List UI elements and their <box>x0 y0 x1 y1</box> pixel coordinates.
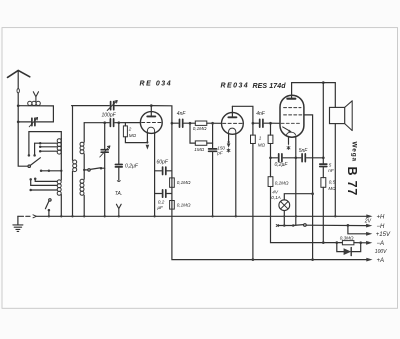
node splitter <box>189 122 192 125</box>
wire lower tap2 <box>31 180 58 185</box>
svg-text:0,2MΩ: 0,2MΩ <box>275 181 289 186</box>
svg-text:−A: −A <box>377 241 385 247</box>
resistor 0,5MOhm <box>322 167 324 243</box>
lamp feed wire <box>284 194 312 200</box>
svg-text:4nF: 4nF <box>177 111 187 117</box>
speaker return wire <box>334 124 336 217</box>
wire S2 to bus <box>48 210 50 216</box>
svg-text:MΩ: MΩ <box>328 186 336 191</box>
svg-text:0,2µF: 0,2µF <box>125 164 139 170</box>
band switch S2 arm <box>45 201 49 209</box>
capacitor trimmer on rail <box>111 102 114 110</box>
node contact riser1 <box>28 154 31 157</box>
node +A junction b <box>311 258 314 261</box>
node lower contact d <box>29 178 32 181</box>
capacitor tuning variable C2 <box>104 123 106 217</box>
node rail/V1 plate <box>150 104 153 107</box>
wire tap3 <box>40 150 57 152</box>
wire V3 plate link top <box>292 82 324 84</box>
power switch line <box>278 225 293 227</box>
x mark switch end <box>276 225 278 227</box>
band switch S2 hinge <box>49 199 51 201</box>
resistor 2MOhm grid leak <box>124 123 126 126</box>
ground <box>17 216 19 224</box>
capacitor antenna variable C1 <box>18 121 53 123</box>
svg-text:RES 174d: RES 174d <box>253 83 287 90</box>
filament arrow V1 <box>146 145 150 150</box>
inductor tuned coil L2b <box>57 180 61 195</box>
svg-text:0,1MΩ: 0,1MΩ <box>177 180 191 185</box>
node contact tap2 <box>39 146 42 149</box>
node lower contact a <box>40 170 43 173</box>
speaker feed wire <box>323 83 335 108</box>
wire V3 screen to +A <box>304 115 313 260</box>
wire lower tap1 <box>35 180 57 182</box>
node 4nF junction on column <box>171 122 174 125</box>
resistor 1MOhm grid V3 <box>270 123 272 158</box>
wire +15V <box>348 225 366 233</box>
capacitor 0,2uF TA <box>118 123 120 164</box>
svg-text:5nF: 5nF <box>299 148 309 154</box>
node S3 tie <box>83 169 85 171</box>
svg-text:0,1MΩ: 0,1MΩ <box>193 126 207 131</box>
wire riser2 to tap1 <box>34 143 36 154</box>
lamp 4V 0,1A <box>279 200 290 211</box>
wire lamp to switch line <box>283 211 285 226</box>
node lower contact e <box>29 189 32 192</box>
wire V1 cathode column <box>154 133 156 217</box>
svg-text:−H: −H <box>377 224 386 230</box>
terminal arrow -H <box>366 224 372 228</box>
svg-text:0,1MΩ: 0,1MΩ <box>177 203 191 208</box>
resistor 0,1MOhm b <box>170 201 175 210</box>
terminal arrow +A <box>366 258 372 262</box>
svg-text:MΩ: MΩ <box>258 142 266 147</box>
wire S3 contact stub <box>101 167 105 169</box>
wire to V3 grid <box>271 122 281 124</box>
node lower contact b <box>48 170 51 173</box>
svg-text:1: 1 <box>259 136 262 141</box>
node bus junctions <box>48 215 337 217</box>
svg-text:0,2: 0,2 <box>158 200 165 205</box>
svg-text:RE034: RE034 <box>221 83 250 90</box>
svg-text:2V: 2V <box>364 219 372 225</box>
node lower feed / coil junction <box>60 170 62 172</box>
svg-text:0,1A: 0,1A <box>271 195 280 200</box>
power switch arm <box>294 224 304 227</box>
wire lower tap3 <box>31 189 58 191</box>
node grid/tuning junction <box>103 121 106 124</box>
terminal arrow +15V <box>366 232 372 236</box>
svg-text:+H: +H <box>377 215 386 221</box>
star mark V3 <box>287 146 290 150</box>
wire lower bank feed <box>41 170 61 172</box>
capacitor 4nF coupling 2 <box>253 122 271 124</box>
node bias wire junction <box>269 156 272 159</box>
TA plug Y <box>116 204 121 216</box>
speaker <box>330 107 345 123</box>
node +A junction a <box>252 258 255 261</box>
svg-text:4nF: 4nF <box>256 111 266 117</box>
node V3 grid junction <box>269 122 272 125</box>
tube V1 RE034 <box>140 112 162 134</box>
node V2 plate <box>252 122 255 125</box>
svg-text:+15V: +15V <box>376 232 391 238</box>
wire V2 cathode column <box>235 134 237 217</box>
svg-text:100pF: 100pF <box>102 113 117 119</box>
wire grid line to V1 <box>84 122 140 124</box>
capacitor 150pF <box>212 123 214 216</box>
svg-text:0,3MΩ: 0,3MΩ <box>340 236 354 241</box>
svg-text:5: 5 <box>329 163 332 168</box>
wire plate column <box>322 83 324 164</box>
svg-text:TA.: TA. <box>115 191 122 197</box>
diode shunt <box>337 243 361 252</box>
tube V2 RE034 <box>222 113 244 135</box>
node switch contact <box>292 224 295 227</box>
node S3 contact <box>100 167 103 170</box>
node lamp on switch line <box>283 224 286 227</box>
resistor 0,3MOhm <box>342 241 354 245</box>
capacitor 5nF a <box>296 157 324 159</box>
node V2 grid <box>211 122 214 125</box>
inductor oscillator coil L3 <box>73 160 77 172</box>
wire V1 plate column / RC chain <box>151 106 366 260</box>
capacitor 5nF b <box>320 164 327 166</box>
node V2 filament junction <box>228 141 230 143</box>
node grid/TA junction <box>117 121 120 124</box>
svg-text:100V: 100V <box>375 249 387 255</box>
resistor 0,1MOhm grid stopper <box>190 122 221 124</box>
node -A right <box>359 241 362 244</box>
tube V3 RES174d <box>280 95 304 137</box>
wire V2 plate link <box>232 106 253 123</box>
band switch S1 arm <box>30 158 40 166</box>
wire V1 filament left leg <box>146 133 148 143</box>
node -A left <box>335 241 338 244</box>
capacitor 60pF <box>155 170 172 172</box>
svg-text:60pF: 60pF <box>157 160 169 166</box>
node contact tap1 <box>39 142 42 145</box>
wire L4 column <box>83 123 85 217</box>
antenna plug connector <box>17 89 19 93</box>
band switch S1 hinge <box>28 165 30 167</box>
wire riser1 to coil top <box>29 132 61 155</box>
filament arrow V2 <box>227 143 231 147</box>
capacitor 0,2uF c <box>271 157 296 159</box>
second antenna Y input <box>33 92 38 102</box>
svg-text:1MΩ: 1MΩ <box>194 147 204 152</box>
inductor grid coil L4a <box>80 142 84 154</box>
node lamp/+A column <box>311 192 314 195</box>
capacitor 0,2uF b <box>155 193 172 195</box>
terminal arrow +H <box>366 214 372 218</box>
svg-text:0,5: 0,5 <box>329 180 336 185</box>
power switch hinge <box>304 224 307 227</box>
node plate line junction <box>322 156 325 159</box>
svg-text:0,2µF: 0,2µF <box>275 162 289 168</box>
node +15V tap <box>347 224 350 227</box>
wire tap1 <box>35 142 58 144</box>
wire L3 column <box>72 106 74 217</box>
wire V2 filament left leg <box>228 134 230 143</box>
wire TA stub with jack <box>118 168 120 181</box>
wire V3 cathode column <box>295 137 297 225</box>
resistor 0,1MOhm a <box>170 178 175 187</box>
band switch S3 arm <box>90 168 100 170</box>
star mark V2 <box>227 149 230 153</box>
node plate/speaker T <box>322 81 325 84</box>
inductor grid coil L4b <box>80 179 84 195</box>
inductor tuned coil L2a <box>57 139 61 154</box>
wire antenna down <box>18 93 28 166</box>
svg-text:RE 034: RE 034 <box>140 81 173 88</box>
capacitor 100pF <box>110 119 113 127</box>
antenna <box>8 70 30 77</box>
top rail to V1 <box>72 105 152 107</box>
resistor 0,2MOhm bias <box>271 158 343 243</box>
band switch S3 hinge <box>84 169 88 171</box>
resistor 1MOhm grid leak V2 <box>190 123 213 143</box>
node S2 contact <box>48 209 51 212</box>
wire tap2 <box>40 146 57 148</box>
terminal arrow -A <box>366 241 372 245</box>
wire V3 left leg <box>288 137 290 144</box>
node V1 filament/2M junction <box>146 141 148 143</box>
main bus wire <box>37 215 367 217</box>
capacitor 4nF coupling 1 <box>172 122 190 124</box>
inductor antenna coil L1 <box>28 101 41 105</box>
wire coil column L2 <box>60 139 62 217</box>
svg-text:Wega: Wega <box>350 142 357 162</box>
svg-text:4V: 4V <box>272 190 279 195</box>
node contact riser2 <box>33 154 36 157</box>
node antenna/cap junction <box>17 121 20 124</box>
wire coil top branch <box>18 106 53 122</box>
node cathode junction V3 <box>294 156 297 159</box>
resistor 1MOhm plate V2 <box>252 123 254 259</box>
node lower contact c <box>34 178 37 181</box>
svg-text:MΩ: MΩ <box>129 133 137 138</box>
node contact tap3 <box>39 150 42 153</box>
wire antenna lead-in <box>17 71 19 89</box>
node antenna/coil junction <box>17 104 20 107</box>
wire -H line <box>306 224 366 226</box>
svg-text:2: 2 <box>128 127 132 132</box>
svg-text:B 77: B 77 <box>345 167 359 197</box>
node 0,5M bottom <box>322 241 325 244</box>
ground branch <box>18 215 30 217</box>
svg-text:+A: +A <box>377 258 385 264</box>
